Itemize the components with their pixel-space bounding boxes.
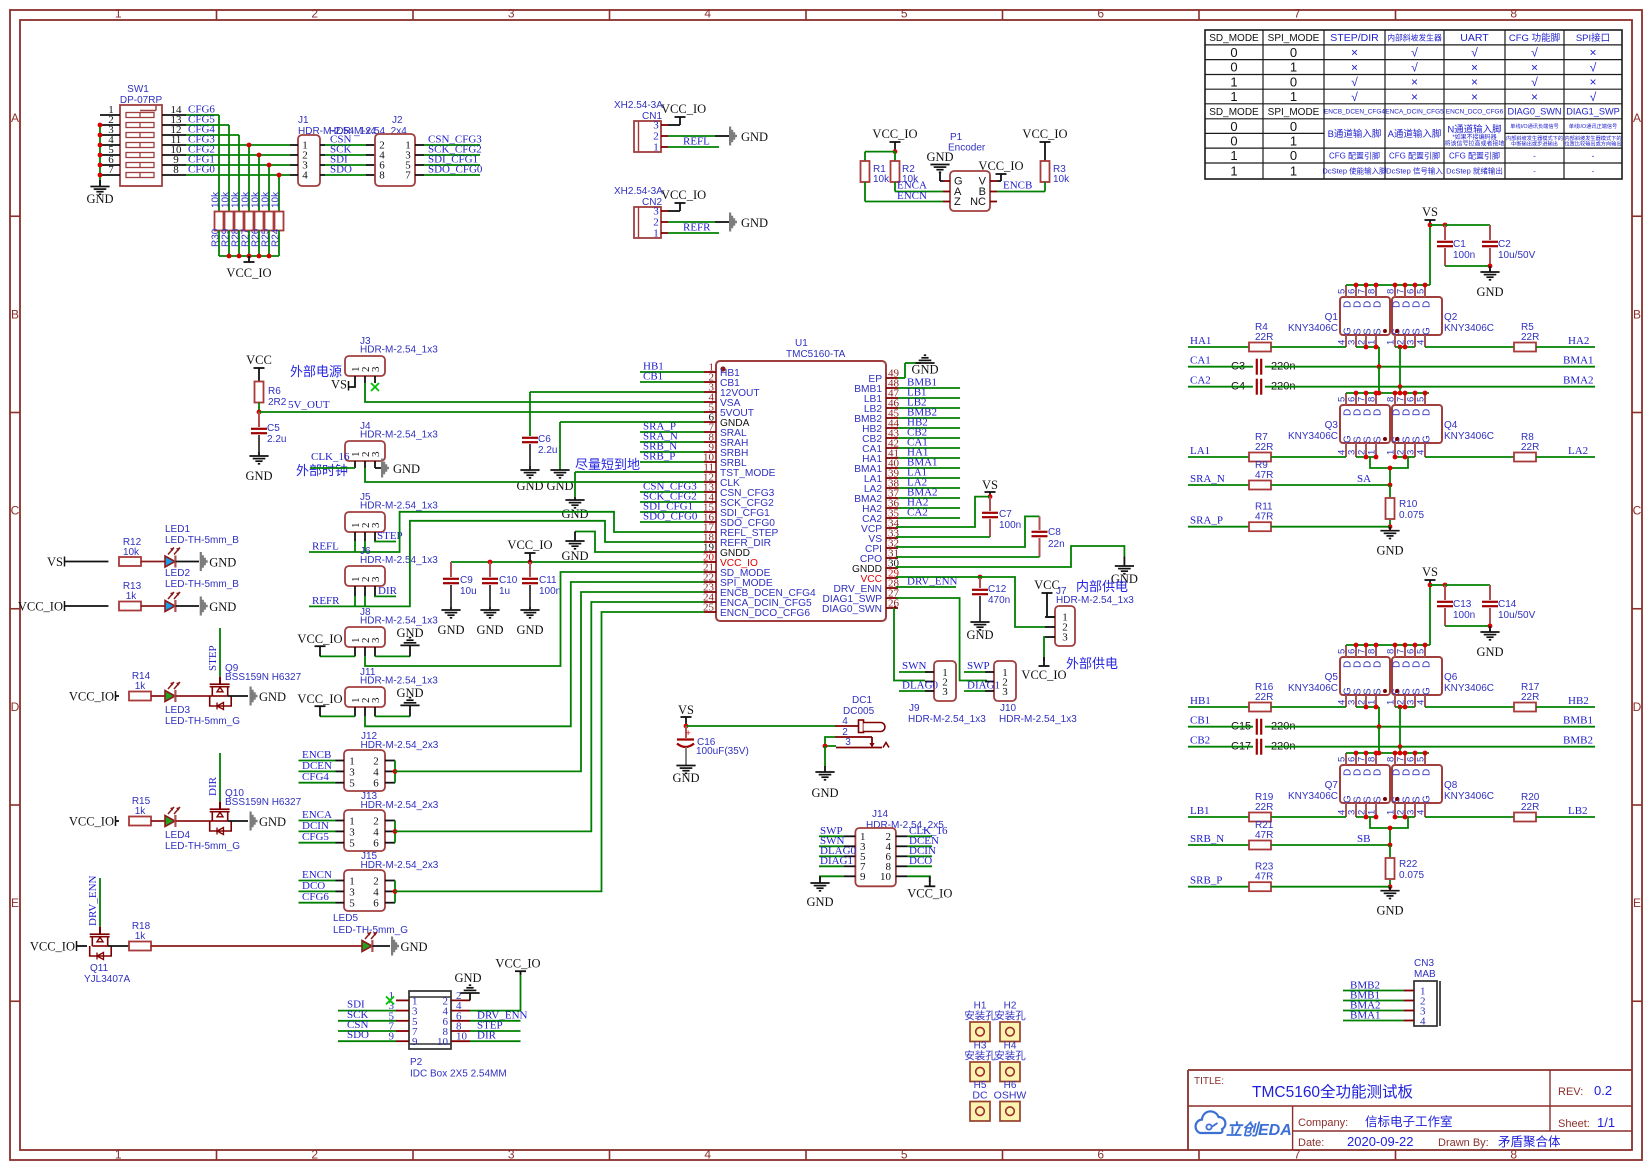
svg-text:DCO: DCO (909, 855, 932, 867)
svg-text:0.2: 0.2 (1594, 1083, 1612, 1098)
ground flag GND at CN2 pin2 (729, 213, 768, 232)
svg-text:REV:: REV: (1558, 1086, 1583, 1098)
net label CB2 capacitor C17 220n (1188, 735, 1595, 755)
svg-text:N通道输入脚: N通道输入脚 (1447, 123, 1501, 135)
svg-text:VCC_IO: VCC_IO (226, 266, 271, 280)
mounting hole H2 (994, 1001, 1026, 1042)
SW1 pin wires left (98, 104, 120, 186)
svg-text:GND: GND (811, 786, 838, 800)
svg-text:DIAG1: DIAG1 (820, 855, 853, 867)
svg-text:S: S (1372, 328, 1383, 335)
svg-text:J10: J10 (1000, 703, 1017, 714)
mounting hole H1 (964, 1001, 996, 1042)
shunt resistor 0.075 (1386, 485, 1425, 529)
svg-text:GND: GND (1376, 904, 1403, 918)
svg-text:1k: 1k (135, 931, 147, 942)
svg-text:0: 0 (1290, 148, 1297, 163)
svg-text:B: B (11, 307, 19, 321)
svg-text:3: 3 (370, 697, 382, 703)
svg-text:10k: 10k (271, 191, 282, 208)
net label DLAG0 at J9 pin3 (899, 680, 939, 692)
svg-text:D: D (1421, 409, 1432, 416)
svg-text:SD_MODE: SD_MODE (1209, 33, 1259, 44)
svg-text:22R: 22R (1521, 332, 1539, 343)
led LED1 blue (141, 524, 239, 568)
svg-text:HDR-M-2.54_1x3: HDR-M-2.54_1x3 (360, 501, 438, 512)
svg-text:CA2: CA2 (1190, 375, 1211, 387)
svg-text:DCO: DCO (302, 880, 325, 892)
svg-text:SRB_P: SRB_P (643, 451, 675, 463)
resistor R2 10k (891, 161, 920, 185)
svg-text:ENCB_DCEN_CFG4: ENCB_DCEN_CFG4 (1324, 109, 1385, 116)
svg-text:3: 3 (370, 637, 382, 643)
net label STEP at J5 pin3 (375, 530, 403, 542)
svg-text:1: 1 (1290, 60, 1297, 75)
connector J11 HDR-M-2.54_1x3 (345, 667, 438, 707)
svg-text:×: × (1471, 60, 1478, 74)
capacitor C16 100uF polarized (672, 726, 748, 785)
svg-text:2020-09-22: 2020-09-22 (1347, 1134, 1414, 1149)
svg-text:DCIN: DCIN (302, 820, 329, 832)
svg-text:√: √ (1590, 60, 1597, 74)
power flag VCC_IO at P2 pin4 (470, 957, 541, 1011)
svg-text:VS: VS (1422, 205, 1438, 219)
wire R1 to encoder pin Z net ENCN (865, 182, 943, 202)
svg-text:C13: C13 (1453, 599, 1472, 610)
power flag VS for block Q5 (1422, 565, 1438, 587)
svg-text:GND: GND (401, 940, 428, 954)
svg-text:4: 4 (1420, 1016, 1426, 1028)
svg-text:1k: 1k (135, 806, 147, 817)
net labels SDI SCK CSN SDO at P2 left (338, 999, 396, 1042)
svg-text:VS: VS (331, 378, 347, 392)
power flag VS for block Q1 (1422, 205, 1438, 227)
connector J8 HDR-M-2.54_1x3 (345, 607, 438, 647)
svg-text:C2: C2 (1498, 239, 1511, 250)
svg-text:3: 3 (370, 451, 382, 457)
svg-text:2.2u: 2.2u (267, 434, 286, 445)
svg-text:Q3: Q3 (1325, 420, 1339, 431)
svg-text:SDO_CFG0: SDO_CFG0 (643, 511, 698, 523)
svg-text:DLAG0: DLAG0 (902, 680, 939, 692)
svg-text:SWN: SWN (902, 660, 927, 672)
svg-text:HB1: HB1 (1190, 695, 1211, 707)
svg-text:6: 6 (1097, 1148, 1104, 1162)
svg-text:CFG4: CFG4 (302, 771, 329, 783)
svg-text:9: 9 (412, 1036, 418, 1048)
svg-text:ENCB: ENCB (1003, 180, 1032, 192)
wire lower fet sources to SA node (1356, 815, 1415, 845)
svg-text:VCC: VCC (246, 353, 272, 367)
net label SRB_N and 47R resistor (1188, 820, 1392, 850)
svg-text:1u: 1u (499, 586, 510, 597)
resistor R14 1k (129, 671, 151, 701)
svg-text:C6: C6 (538, 434, 551, 445)
connector J10 HDR-M-2.54_1x3 (985, 661, 1077, 725)
svg-text:Company:: Company: (1298, 1117, 1348, 1129)
net label CB1 capacitor C15 220n (1188, 715, 1595, 735)
net flag VCC_IO LED5 row (30, 940, 87, 954)
svg-text:DC: DC (972, 1090, 988, 1102)
svg-text:2: 2 (311, 7, 318, 21)
svg-text:5: 5 (1416, 757, 1427, 762)
net label STEP vertical (207, 628, 220, 677)
svg-text:OSHW: OSHW (994, 1090, 1027, 1102)
resistor R3 10k (1041, 161, 1071, 192)
svg-text:C10: C10 (499, 575, 518, 586)
svg-text:HA1: HA1 (1190, 335, 1211, 347)
power flag VCC above R6 (246, 353, 272, 381)
net label SRA_P and 47R resistor (1188, 502, 1390, 532)
svg-text:D: D (11, 700, 20, 714)
svg-text:R10: R10 (1399, 499, 1418, 510)
svg-text:2: 2 (311, 1148, 318, 1162)
svg-text:SWP: SWP (967, 660, 990, 672)
svg-text:安装孔: 安装孔 (994, 1009, 1026, 1022)
net flag VS LED1 row (47, 555, 108, 569)
svg-text:×: × (1589, 75, 1596, 89)
svg-text:KNY3406C: KNY3406C (1288, 791, 1338, 802)
svg-text:LED-TH-5mm_G: LED-TH-5mm_G (165, 841, 240, 852)
net labels SWP SWN DLAG0 DIAG1 at J14 left (819, 825, 857, 867)
svg-text:×: × (1351, 60, 1358, 74)
svg-text:4: 4 (704, 7, 711, 21)
svg-text:GND: GND (396, 626, 423, 640)
svg-text:47R: 47R (1255, 470, 1273, 481)
capacitor C5 2.2u (245, 412, 286, 483)
svg-text:×: × (1531, 60, 1538, 74)
svg-text:SRB_P: SRB_P (1190, 875, 1222, 887)
svg-text:√: √ (1471, 46, 1478, 60)
capacitor C8 22n between CPI and CPO (896, 516, 1065, 557)
ground flag GND LED2 row (200, 597, 237, 616)
svg-text:10u: 10u (460, 586, 477, 597)
connector J6 HDR-M-2.54_1x3 (345, 546, 438, 596)
svg-text:CA1: CA1 (1190, 355, 1211, 367)
power flag VS above C16 (678, 703, 694, 728)
svg-text:ENCN_DCO_CFG6: ENCN_DCO_CFG6 (720, 608, 810, 619)
svg-text:100n: 100n (539, 586, 561, 597)
net label LA1 (1188, 445, 1250, 457)
net labels ENCA DCIN CFG5 at J13 (299, 809, 336, 843)
svg-text:3: 3 (370, 366, 382, 372)
svg-text:GND: GND (396, 686, 423, 700)
svg-text:DRV_ENN: DRV_ENN (87, 875, 99, 926)
svg-text:GND: GND (561, 549, 588, 563)
power flag VCC above J7 (1034, 578, 1060, 617)
net label SWP at J10 pin1 (964, 660, 990, 672)
net labels ENCN DCO CFG6 at J15 (299, 869, 336, 903)
svg-text:VCC_IO: VCC_IO (872, 127, 917, 141)
svg-text:ENCN: ENCN (897, 190, 927, 202)
transistor Q4 KNY3406C (1386, 393, 1495, 457)
svg-text:外部时钟: 外部时钟 (296, 463, 348, 478)
svg-text:HB2: HB2 (1568, 695, 1589, 707)
svg-text:DIR: DIR (378, 585, 398, 597)
resistor R20 22R at LB2 (1425, 792, 1595, 822)
svg-text:0.075: 0.075 (1399, 870, 1424, 881)
svg-text:22R: 22R (1521, 802, 1539, 813)
svg-text:0: 0 (1230, 60, 1237, 75)
svg-text:GND: GND (561, 507, 588, 521)
svg-text:B通道输入脚: B通道输入脚 (1328, 128, 1382, 140)
svg-text:STEP: STEP (207, 645, 219, 671)
net label REFL and wire J5 to U1 REFL_STEP (309, 512, 704, 553)
svg-text:3: 3 (942, 686, 948, 698)
transistor Q11 YJL3407A (84, 927, 130, 985)
svg-text:矛盾聚合体: 矛盾聚合体 (1498, 1134, 1561, 1149)
svg-text:CB1: CB1 (1190, 715, 1210, 727)
svg-text:26: 26 (888, 598, 900, 610)
connector CN1 XH2.54-3A (614, 100, 668, 154)
svg-text:HDR-M-2.54_1x3: HDR-M-2.54_1x3 (999, 714, 1077, 725)
svg-text:GND: GND (476, 623, 503, 637)
capacitor C14 10u/50V (1445, 585, 1536, 628)
svg-text:HDR-M-2.54_1x3: HDR-M-2.54_1x3 (360, 555, 438, 566)
svg-text:安装孔: 安装孔 (994, 1049, 1026, 1062)
svg-text:B: B (1633, 307, 1641, 321)
power flag VCC_IO at P1 pin V (978, 159, 1023, 181)
svg-text:7: 7 (108, 164, 114, 176)
svg-text:CFG5: CFG5 (302, 831, 329, 843)
svg-text:XH2.54-3A: XH2.54-3A (614, 186, 663, 197)
svg-text:DIAG1_SWP: DIAG1_SWP (1566, 107, 1620, 117)
svg-text:1/1: 1/1 (1597, 1115, 1615, 1130)
svg-text:G: G (1421, 687, 1432, 695)
svg-text:VCC_IO: VCC_IO (507, 538, 552, 552)
svg-text:1: 1 (1230, 148, 1237, 163)
svg-text:J14: J14 (872, 809, 889, 820)
net label HA2 and resistor R5 22R (1425, 322, 1595, 352)
svg-text:10u/50V: 10u/50V (1498, 250, 1536, 261)
svg-text:HDR-M-2.54_1x3: HDR-M-2.54_1x3 (360, 616, 438, 627)
SW1 pin wires right with CFG labels (162, 104, 290, 213)
svg-text:Q2: Q2 (1444, 312, 1458, 323)
svg-text:VS: VS (678, 703, 694, 717)
svg-text:CFG 功能脚: CFG 功能脚 (1509, 32, 1560, 44)
wire VS rail to upper fets (1346, 585, 1430, 647)
svg-text:外部供电: 外部供电 (1066, 656, 1118, 671)
no-connect X at P2 pin1 (386, 996, 394, 1004)
capacitor C12 470n on VCC rail (966, 575, 1010, 642)
svg-text:4: 4 (1416, 340, 1427, 345)
svg-text:1k: 1k (126, 591, 138, 602)
svg-text:3: 3 (349, 766, 355, 778)
net label DRV_ENN vertical at Q11 gate (87, 875, 100, 926)
power flag VCC_IO at J11 pin1 (297, 692, 355, 717)
switch SW1 DP-07RP (120, 84, 163, 186)
resistor bank R30-R24 10k pullups (211, 191, 284, 259)
net labels DRV_ENN STEP DIR at P2 right (470, 1009, 528, 1041)
svg-text:NC: NC (970, 196, 986, 208)
svg-text:4: 4 (302, 170, 308, 182)
svg-text:SB: SB (1357, 833, 1370, 845)
ground GND under shunt (1376, 527, 1403, 558)
svg-text:SRB_N: SRB_N (1190, 833, 1224, 845)
connector J5 HDR-M-2.54_1x3 (345, 492, 438, 541)
svg-text:470n: 470n (988, 595, 1010, 606)
svg-text:U1: U1 (795, 338, 808, 349)
svg-text:3: 3 (1002, 686, 1008, 698)
net label stubs BMB1..CA2 at U1 right pins 48-35 (898, 377, 960, 519)
resistor R7 22R at LA1 (1249, 432, 1346, 462)
svg-text:GND: GND (259, 690, 286, 704)
svg-text:1: 1 (1230, 89, 1237, 104)
svg-text:×: × (1351, 46, 1358, 60)
svg-text:5: 5 (349, 838, 355, 850)
svg-text:GND: GND (86, 192, 113, 206)
svg-text:将该信号拉高或者接地: 将该信号拉高或者接地 (1444, 140, 1504, 148)
power flag VCC_IO at J14 pin10 (907, 876, 952, 900)
svg-text:22R: 22R (1255, 332, 1273, 343)
svg-text:100n: 100n (1453, 610, 1475, 621)
resistor R19 22R at LB1 (1249, 792, 1346, 822)
svg-text:1: 1 (653, 142, 659, 154)
svg-text:LA2: LA2 (1568, 445, 1588, 457)
svg-text:22R: 22R (1255, 442, 1273, 453)
svg-text:R6: R6 (268, 386, 281, 397)
svg-text:×: × (1589, 46, 1596, 60)
svg-text:REFL: REFL (683, 136, 710, 148)
svg-text:D: D (1421, 661, 1432, 668)
svg-text:1: 1 (1290, 89, 1297, 104)
svg-text:内部斜坡发生器: 内部斜坡发生器 (1387, 32, 1442, 42)
svg-text:8: 8 (1510, 1148, 1517, 1162)
capacitor C7 100n between VCP and VS (896, 497, 1021, 537)
svg-text:6: 6 (1097, 7, 1104, 21)
svg-text:2.2u: 2.2u (538, 445, 557, 456)
svg-text:信标电子工作室: 信标电子工作室 (1365, 1114, 1453, 1129)
svg-text:SPI接口: SPI接口 (1576, 32, 1610, 44)
svg-text:CB2: CB2 (1190, 735, 1210, 747)
mounting hole H4 (994, 1041, 1026, 1082)
connector J14 HDR-M-2.54_2x5 (844, 809, 945, 886)
wire J11 pin2 to U1 row (365, 582, 704, 726)
svg-text:XH2.54-3A: XH2.54-3A (614, 100, 663, 111)
svg-text:47R: 47R (1255, 872, 1273, 883)
svg-text:KNY3406C: KNY3406C (1444, 683, 1494, 694)
ground GND at P1 pin G (926, 150, 953, 181)
svg-text:√: √ (1531, 46, 1538, 60)
svg-text:DIAG0_SWN: DIAG0_SWN (822, 604, 882, 615)
svg-text:D: D (1372, 409, 1383, 416)
resistor R8 22R at LA2 (1425, 432, 1595, 462)
svg-text:×: × (1411, 75, 1418, 89)
svg-text:√: √ (1411, 60, 1418, 74)
svg-text:G: G (1421, 435, 1432, 443)
svg-text:VCC_IO: VCC_IO (661, 102, 706, 116)
svg-text:0: 0 (1230, 45, 1237, 60)
svg-text:√: √ (1351, 75, 1358, 89)
net label HA1 and resistor R4 22R (1188, 322, 1346, 352)
connector J12 HDR-M-2.54_2x3 (336, 731, 439, 791)
wire VS rail to upper fets (1346, 225, 1430, 287)
svg-text:1k: 1k (135, 681, 147, 692)
svg-text:×: × (1471, 75, 1478, 89)
transistor Q3 KNY3406C (1288, 393, 1390, 457)
svg-text:SA: SA (1357, 473, 1371, 485)
svg-text:D: D (1421, 769, 1432, 776)
svg-text:VS: VS (47, 555, 63, 569)
svg-text:4: 4 (1416, 810, 1427, 815)
svg-text:GND: GND (741, 216, 768, 230)
net label DIR vertical (207, 753, 220, 802)
svg-text:100uF(35V): 100uF(35V) (696, 746, 749, 757)
svg-text:G: G (1421, 795, 1432, 803)
transistor Q7 KNY3406C (1288, 753, 1390, 817)
transistor Q1 KNY3406C (1288, 285, 1390, 347)
ground GND at P2 pin2 (454, 971, 481, 1000)
svg-text:1: 1 (115, 1148, 122, 1162)
svg-text:单线I/O通讯负端信号: 单线I/O通讯负端信号 (1510, 122, 1558, 130)
power flag VCC_IO above R1 R2 (872, 127, 917, 154)
svg-text:1: 1 (653, 228, 659, 240)
net labels CSN_CFG3..SDO_CFG0 at U1 pins 13-16 (640, 481, 704, 523)
ground at U1 GNDA (546, 422, 704, 493)
svg-text:GND: GND (1376, 544, 1403, 558)
net label DIAG1 at J10 pin3 (964, 680, 1000, 692)
svg-text:Q5: Q5 (1325, 672, 1339, 683)
svg-text:3: 3 (349, 826, 355, 838)
svg-text:GND: GND (209, 600, 236, 614)
svg-text:TITLE:: TITLE: (1194, 1076, 1224, 1087)
svg-text:GND: GND (806, 895, 833, 909)
led LED3 green (151, 682, 240, 727)
wire U1 VCP pin34 to VS flag (896, 497, 990, 527)
ground GND at J8 pin3 (375, 626, 424, 657)
connector J9 HDR-M-2.54_1x3 (908, 661, 986, 725)
svg-text:DC1: DC1 (852, 695, 872, 706)
svg-text:√: √ (1531, 75, 1538, 89)
svg-text:ENCA_DCIN_CFG5: ENCA_DCIN_CFG5 (1385, 109, 1444, 116)
svg-text:HDR-M-2.54_1x3: HDR-M-2.54_1x3 (1056, 595, 1134, 606)
wire U1 VCC pin to J7 pin2 (896, 577, 1045, 627)
svg-text:尽量短到地: 尽量短到地 (575, 457, 640, 472)
svg-text:4: 4 (1416, 450, 1427, 455)
svg-text:KNY3406C: KNY3406C (1444, 791, 1494, 802)
svg-text:内部供电: 内部供电 (1076, 579, 1128, 594)
svg-text:3: 3 (508, 7, 515, 21)
svg-text:MAB: MAB (1414, 969, 1436, 980)
svg-text:C9: C9 (460, 575, 473, 586)
ground at U1 GNDD pin19 (561, 532, 704, 564)
svg-text:1: 1 (1290, 164, 1297, 179)
wire upper fet sources (1356, 705, 1415, 747)
wire upper fet sources (1356, 345, 1415, 387)
net flag VS at J3 pin1 (331, 378, 355, 392)
svg-text:GND: GND (259, 815, 286, 829)
power flag VCC_IO at CN2 pin3 (661, 188, 706, 211)
svg-text:安装孔: 安装孔 (964, 1049, 996, 1062)
svg-text:KNY3406C: KNY3406C (1288, 683, 1338, 694)
svg-text:STEP/DIR: STEP/DIR (1330, 32, 1379, 44)
svg-text:VCC_IO: VCC_IO (69, 690, 114, 704)
svg-text:C5: C5 (267, 423, 280, 434)
svg-text:Q4: Q4 (1444, 420, 1458, 431)
svg-text:4: 4 (704, 1148, 711, 1162)
svg-text:6: 6 (373, 778, 379, 790)
svg-text:1: 1 (1230, 164, 1237, 179)
svg-text:10k: 10k (1053, 174, 1070, 185)
svg-text:LA1: LA1 (1190, 445, 1210, 457)
svg-text:22R: 22R (1255, 692, 1273, 703)
capacitor C10 1u (476, 562, 517, 637)
svg-text:C14: C14 (1498, 599, 1517, 610)
wire R2 to encoder pin A net ENCA (895, 180, 943, 192)
svg-text:4: 4 (373, 766, 379, 778)
svg-text:C11: C11 (539, 575, 557, 586)
svg-text:×: × (1411, 90, 1418, 104)
